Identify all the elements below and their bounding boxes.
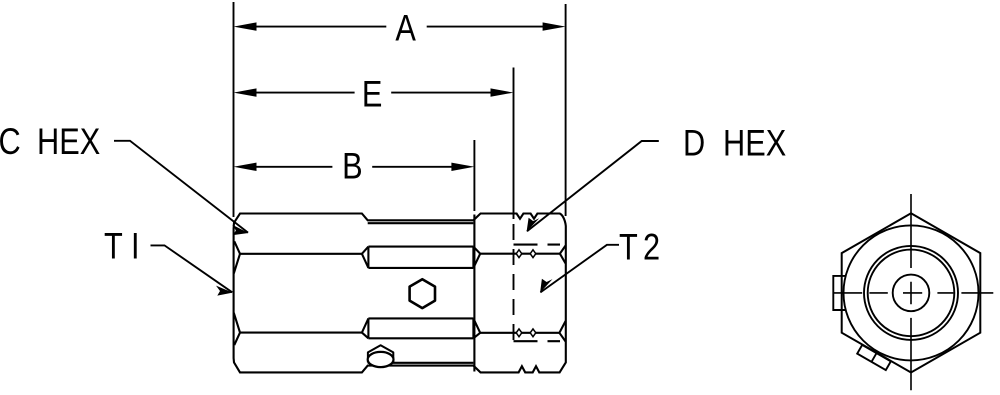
hidden thread line top (514, 244, 561, 246)
label C HEX (0, 121, 21, 163)
label B (342, 146, 363, 188)
svg-text:HEX: HEX (37, 121, 100, 163)
extension line A right (565, 4, 567, 216)
middle hexagon (410, 279, 435, 308)
leader D HEX (527, 141, 659, 231)
leader TI (151, 245, 233, 292)
mid chamfer line bottom (368, 362, 474, 364)
svg-text:2: 2 (643, 227, 660, 269)
bottom ellipse (368, 352, 394, 367)
centerline vertical (910, 194, 912, 390)
bottom hexagon (368, 345, 393, 362)
D hex right chevron top (560, 246, 566, 264)
band top right chevron (473, 247, 480, 268)
svg-text:D: D (683, 123, 705, 165)
C hex left chevron top (234, 241, 240, 273)
thread diamonds (516, 250, 536, 337)
label D HEX (683, 123, 705, 165)
end hexagon (842, 213, 981, 372)
body outline (234, 214, 566, 373)
C hex flat line top (240, 253, 362, 255)
svg-text:B: B (342, 146, 363, 188)
chamfer circle (844, 225, 979, 360)
thread circle inner (868, 250, 955, 337)
bore circle (893, 275, 930, 312)
bottom tab divider (872, 353, 877, 362)
centerline horizontal (834, 292, 993, 294)
extension line left (A/E/B) (233, 2, 235, 217)
svg-text:T: T (619, 227, 638, 269)
left tab (833, 276, 845, 310)
thread circle outer (864, 246, 958, 340)
extension line B right (473, 140, 475, 211)
svg-text:T: T (104, 226, 123, 268)
dimension E line (254, 92, 355, 94)
svg-text:E: E (362, 74, 383, 116)
label E (362, 74, 383, 116)
band top left chevron (362, 247, 369, 268)
mid chamfer line top (368, 222, 474, 224)
end view (833, 194, 993, 390)
band bottom left chevron (362, 318, 369, 338)
leader T2 (540, 245, 619, 293)
D hex right chevron bottom (559, 321, 565, 342)
dimension B line (254, 166, 332, 168)
label T2 (619, 227, 638, 269)
mid flat band bottom (368, 318, 473, 338)
label TI (104, 226, 123, 268)
mid flat band top (368, 247, 473, 268)
band bottom right chevron (473, 318, 480, 338)
C hex left chevron bottom (234, 313, 240, 345)
leader C HEX (114, 141, 248, 233)
C hex flat line bottom (240, 332, 362, 334)
dimension A line (254, 26, 386, 28)
D hex flat line bottom (480, 332, 559, 334)
svg-text:HEX: HEX (723, 123, 786, 165)
D hex flat line top (480, 253, 560, 255)
D hex left face (473, 215, 475, 372)
extension line E right (513, 68, 515, 220)
svg-text:A: A (395, 8, 416, 50)
svg-text:C: C (0, 121, 21, 163)
side view body (234, 214, 566, 373)
hidden thread line bottom (514, 340, 561, 342)
svg-text:I: I (131, 226, 140, 268)
bottom tab (857, 345, 891, 370)
hidden line E inside body (513, 224, 515, 341)
label A (395, 8, 416, 50)
